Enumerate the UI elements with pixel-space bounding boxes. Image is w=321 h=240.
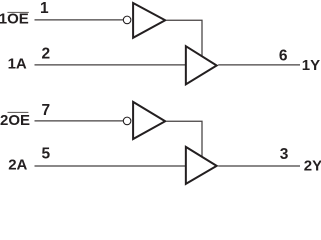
bubble (active-low enable) channel 2 [123, 117, 131, 125]
wire 1Y output [218, 64, 300, 66]
svg-text:2: 2 [42, 46, 51, 63]
wire 2A input [35, 165, 187, 167]
enable buffer triangle U1 channel 1 [133, 3, 165, 38]
wire 2OE input [35, 120, 124, 122]
svg-text:6: 6 [279, 47, 288, 64]
svg-text:5: 5 [42, 145, 51, 162]
bubble (active-low enable) channel 1 [123, 16, 131, 24]
svg-text:2OE: 2OE [0, 112, 30, 129]
svg-text:2A: 2A [8, 157, 27, 174]
wire 1OE input [35, 19, 124, 21]
svg-text:1: 1 [40, 0, 49, 17]
enable buffer triangle channel 2 [133, 102, 165, 139]
svg-text:7: 7 [42, 102, 51, 119]
svg-text:1Y: 1Y [302, 57, 320, 74]
tri-state output buffer triangle channel 1 [186, 46, 217, 84]
wire enable-to-output-buffer channel 1 [167, 20, 203, 56]
svg-text:1OE: 1OE [0, 11, 29, 28]
svg-text:2Y: 2Y [304, 158, 321, 175]
tri-state output buffer triangle channel 2 [186, 147, 217, 184]
wire 1A input [35, 64, 187, 66]
wire enable-to-output-buffer channel 2 [167, 121, 203, 157]
svg-text:1A: 1A [8, 56, 27, 73]
wire 2Y output [218, 165, 300, 167]
svg-text:3: 3 [280, 146, 289, 163]
